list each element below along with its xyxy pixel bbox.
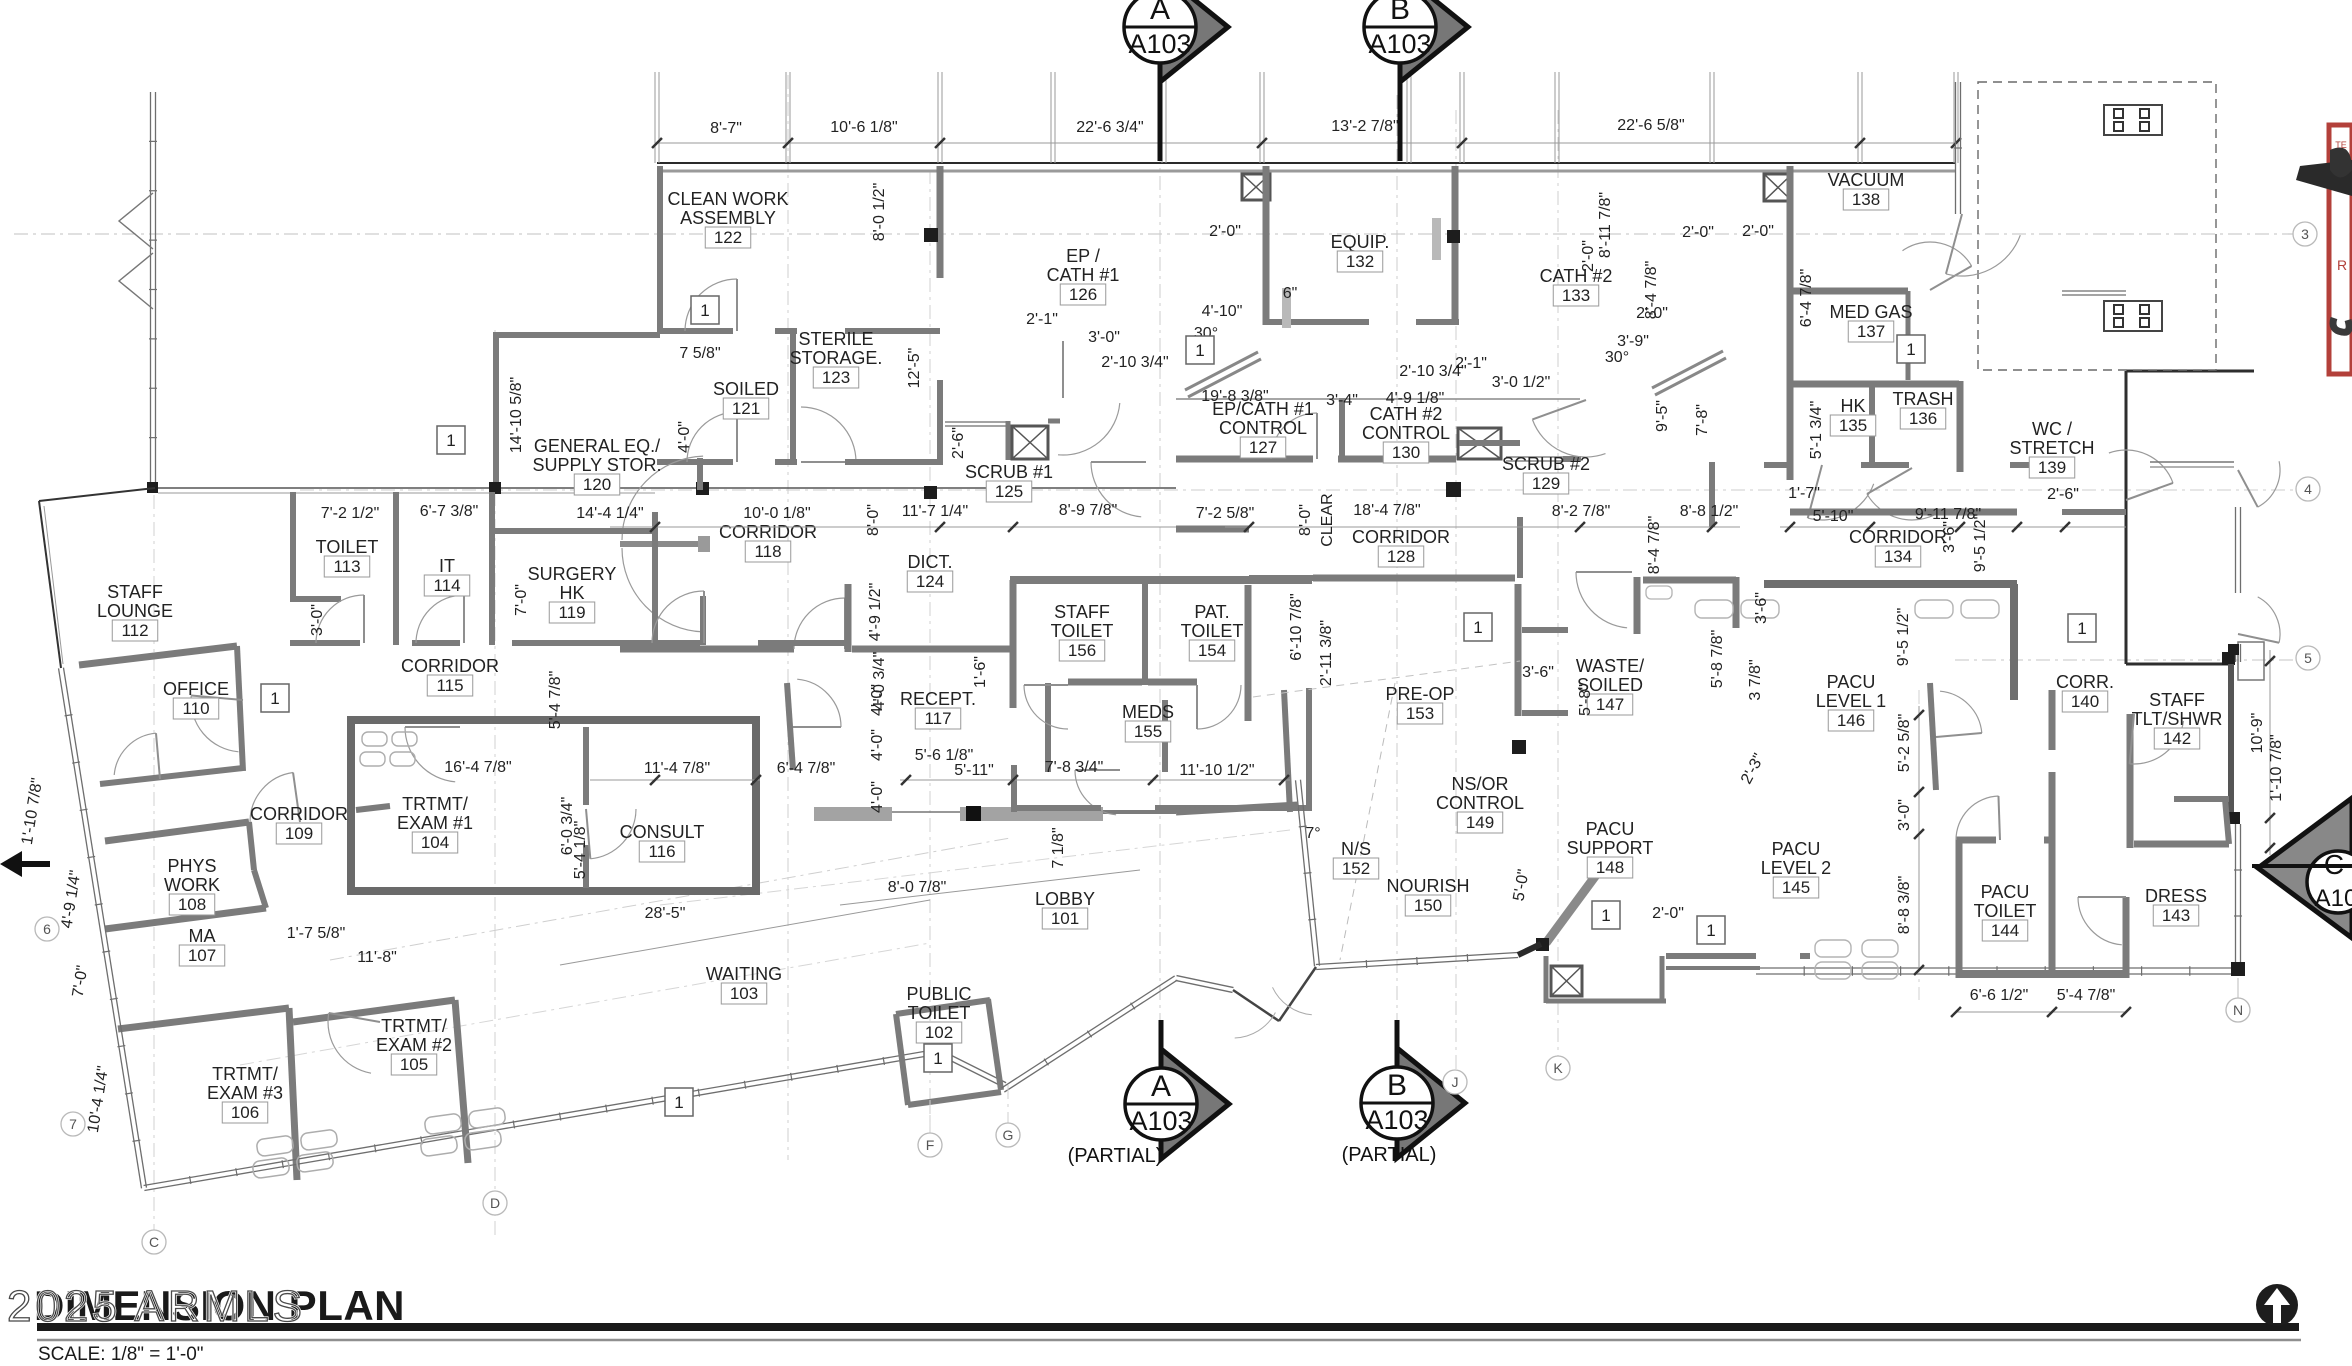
svg-text:7°: 7°	[1305, 825, 1320, 842]
svg-text:K: K	[1553, 1060, 1563, 1076]
svg-text:148: 148	[1596, 858, 1624, 877]
svg-text:16'-4 7/8": 16'-4 7/8"	[444, 759, 511, 776]
svg-text:CONTROL: CONTROL	[1362, 423, 1450, 443]
svg-text:4'-0": 4'-0"	[869, 781, 886, 813]
svg-text:PAT.: PAT.	[1194, 602, 1229, 622]
svg-text:135: 135	[1839, 416, 1867, 435]
svg-text:CORR.: CORR.	[2056, 672, 2114, 692]
svg-text:18'-4 7/8": 18'-4 7/8"	[1353, 502, 1420, 519]
svg-text:2'-0": 2'-0"	[1682, 224, 1714, 241]
svg-text:113: 113	[333, 557, 360, 576]
svg-text:2'-0": 2'-0"	[1209, 223, 1241, 240]
svg-text:5'-10": 5'-10"	[1813, 508, 1854, 525]
svg-text:10'-6 1/8": 10'-6 1/8"	[830, 119, 897, 136]
svg-text:3'-6": 3'-6"	[1941, 521, 1958, 553]
svg-text:1: 1	[2077, 619, 2086, 638]
svg-text:138: 138	[1852, 190, 1880, 209]
svg-text:104: 104	[421, 833, 449, 852]
svg-text:109: 109	[285, 824, 313, 843]
svg-text:1: 1	[1601, 906, 1610, 925]
svg-text:144: 144	[1991, 921, 2019, 940]
svg-text:7: 7	[69, 1116, 77, 1132]
svg-text:PACU: PACU	[1827, 672, 1876, 692]
svg-text:4'-9 1/8": 4'-9 1/8"	[1386, 390, 1445, 407]
svg-text:MED GAS: MED GAS	[1829, 302, 1912, 322]
svg-text:4'-10": 4'-10"	[1202, 303, 1243, 320]
svg-text:LOBBY: LOBBY	[1035, 889, 1095, 909]
svg-text:120: 120	[583, 475, 611, 494]
svg-text:1: 1	[270, 689, 279, 708]
svg-text:N/S: N/S	[1341, 839, 1371, 859]
svg-text:30°: 30°	[1605, 349, 1629, 366]
svg-text:11'-7 1/4": 11'-7 1/4"	[902, 503, 968, 520]
svg-text:A103: A103	[1129, 1106, 1192, 1136]
svg-text:MA: MA	[189, 926, 216, 946]
svg-text:SCALE: 1/8" = 1'-0": SCALE: 1/8" = 1'-0"	[38, 1344, 204, 1365]
svg-text:3'-0": 3'-0"	[309, 604, 326, 636]
svg-text:8'-8 1/2": 8'-8 1/2"	[1680, 503, 1739, 520]
svg-text:6": 6"	[1283, 285, 1298, 302]
svg-text:CORRIDOR: CORRIDOR	[1849, 527, 1947, 547]
svg-text:1'-7 5/8": 1'-7 5/8"	[287, 925, 346, 942]
svg-text:OFFICE: OFFICE	[163, 679, 229, 699]
svg-text:TRASH: TRASH	[1892, 389, 1953, 409]
svg-text:122: 122	[714, 228, 742, 247]
svg-text:14'-4 1/4": 14'-4 1/4"	[576, 505, 643, 522]
svg-text:6'-7 3/8": 6'-7 3/8"	[420, 503, 479, 520]
svg-text:HK: HK	[559, 583, 584, 603]
svg-text:WORK: WORK	[164, 875, 220, 895]
svg-text:5: 5	[2304, 650, 2312, 666]
svg-text:G: G	[1003, 1127, 1014, 1143]
svg-text:7 1/8": 7 1/8"	[1050, 827, 1067, 868]
svg-text:1: 1	[1195, 341, 1204, 360]
svg-text:4'-0": 4'-0"	[676, 421, 693, 453]
svg-text:5'-4 7/8": 5'-4 7/8"	[2057, 987, 2116, 1004]
svg-text:3 7/8": 3 7/8"	[1747, 659, 1764, 700]
svg-text:129: 129	[1532, 474, 1560, 493]
svg-text:CORRIDOR: CORRIDOR	[1352, 527, 1450, 547]
svg-text:STRETCH: STRETCH	[2010, 438, 2095, 458]
svg-text:9'-5": 9'-5"	[1654, 400, 1671, 432]
svg-text:CLEAN WORK: CLEAN WORK	[667, 189, 788, 209]
svg-text:TRTMT/: TRTMT/	[212, 1064, 278, 1084]
svg-text:8'-0": 8'-0"	[1297, 504, 1314, 536]
svg-text:CLEAR: CLEAR	[1319, 493, 1336, 546]
svg-text:3'-0 1/2": 3'-0 1/2"	[1492, 374, 1551, 391]
svg-text:130: 130	[1392, 443, 1420, 462]
svg-text:2'-6": 2'-6"	[950, 427, 967, 459]
svg-text:137: 137	[1857, 322, 1885, 341]
svg-text:146: 146	[1837, 711, 1865, 730]
svg-text:EQUIP.: EQUIP.	[1331, 232, 1390, 252]
svg-text:B: B	[1387, 1069, 1407, 1102]
svg-text:125: 125	[995, 482, 1023, 501]
svg-text:114: 114	[433, 576, 460, 595]
svg-text:CATH #2: CATH #2	[1540, 266, 1613, 286]
svg-text:105: 105	[400, 1055, 428, 1074]
svg-text:28'-5": 28'-5"	[645, 905, 686, 922]
svg-text:2'-0": 2'-0"	[1580, 240, 1597, 272]
svg-text:CONSULT: CONSULT	[620, 822, 705, 842]
svg-text:VACUUM: VACUUM	[1828, 170, 1905, 190]
svg-text:4'-0": 4'-0"	[869, 684, 886, 716]
svg-text:EXAM #3: EXAM #3	[207, 1083, 283, 1103]
svg-text:LEVEL 1: LEVEL 1	[1816, 691, 1886, 711]
svg-text:8'-2 7/8": 8'-2 7/8"	[1552, 503, 1611, 520]
svg-text:NS/OR: NS/OR	[1451, 774, 1508, 794]
svg-text:8'-4 7/8": 8'-4 7/8"	[1646, 516, 1663, 575]
svg-text:A: A	[1150, 0, 1170, 26]
svg-text:WAITING: WAITING	[706, 964, 782, 984]
svg-text:PACU: PACU	[1772, 839, 1821, 859]
svg-text:STERILE: STERILE	[798, 329, 873, 349]
svg-text:1: 1	[674, 1093, 683, 1112]
svg-text:11'-4 7/8": 11'-4 7/8"	[644, 760, 710, 777]
svg-text:SCRUB #1: SCRUB #1	[965, 462, 1053, 482]
svg-text:121: 121	[732, 399, 760, 418]
svg-text:11'-10 1/2": 11'-10 1/2"	[1179, 762, 1254, 779]
svg-text:D: D	[490, 1195, 500, 1211]
svg-text:A103: A103	[1128, 29, 1191, 59]
svg-text:PRE-OP: PRE-OP	[1385, 684, 1454, 704]
svg-text:B: B	[1390, 0, 1410, 26]
svg-text:MEDS: MEDS	[1122, 702, 1174, 722]
svg-text:4: 4	[2304, 481, 2312, 497]
svg-text:126: 126	[1069, 285, 1097, 304]
svg-text:10'-0 1/8": 10'-0 1/8"	[743, 505, 810, 522]
svg-text:5'-8 7/8": 5'-8 7/8"	[1709, 630, 1726, 689]
svg-text:CORRIDOR: CORRIDOR	[250, 804, 348, 824]
svg-text:140: 140	[2071, 692, 2099, 711]
svg-text:TOILET: TOILET	[1181, 621, 1244, 641]
svg-text:STORAGE.: STORAGE.	[790, 348, 883, 368]
svg-text:147: 147	[1596, 695, 1624, 714]
svg-text:GENERAL EQ./: GENERAL EQ./	[534, 436, 660, 456]
svg-text:8'-8 3/8": 8'-8 3/8"	[1896, 876, 1913, 935]
svg-text:CORRIDOR: CORRIDOR	[401, 656, 499, 676]
svg-text:SURGERY: SURGERY	[528, 564, 617, 584]
svg-text:136: 136	[1909, 409, 1937, 428]
svg-text:115: 115	[436, 676, 463, 695]
svg-text:143: 143	[2162, 906, 2190, 925]
svg-text:12'-5": 12'-5"	[906, 348, 923, 389]
svg-text:PUBLIC: PUBLIC	[906, 984, 971, 1004]
svg-text:117: 117	[924, 709, 951, 728]
svg-text:PACU: PACU	[1981, 882, 2030, 902]
svg-text:1: 1	[1706, 921, 1715, 940]
svg-text:ASSEMBLY: ASSEMBLY	[680, 208, 776, 228]
svg-text:7'-2 5/8": 7'-2 5/8"	[1196, 505, 1255, 522]
svg-text:EXAM #2: EXAM #2	[376, 1035, 452, 1055]
svg-text:128: 128	[1387, 547, 1415, 566]
svg-text:1: 1	[1473, 618, 1482, 637]
svg-text:PHYS: PHYS	[167, 856, 216, 876]
svg-text:CORRIDOR: CORRIDOR	[719, 522, 817, 542]
svg-text:3: 3	[2301, 226, 2309, 242]
svg-text:5'-11": 5'-11"	[954, 762, 994, 779]
svg-text:5'-4 7/8": 5'-4 7/8"	[547, 671, 564, 730]
svg-text:7'-8 3/4": 7'-8 3/4"	[1045, 759, 1104, 776]
svg-text:TLT/SHWR: TLT/SHWR	[2132, 709, 2223, 729]
svg-text:2'-1": 2'-1"	[1026, 311, 1058, 328]
svg-text:DRESS: DRESS	[2145, 886, 2207, 906]
svg-text:1: 1	[700, 301, 709, 320]
svg-text:(PARTIAL): (PARTIAL)	[1068, 1145, 1163, 1167]
svg-text:1: 1	[1906, 340, 1915, 359]
svg-text:5'-4 1/8": 5'-4 1/8"	[572, 821, 589, 880]
svg-text:14'-10 5/8": 14'-10 5/8"	[508, 377, 525, 453]
svg-text:2'-11 3/8": 2'-11 3/8"	[1318, 620, 1335, 686]
svg-text:CATH #2: CATH #2	[1370, 404, 1443, 424]
svg-text:1: 1	[446, 431, 455, 450]
svg-text:TE: TE	[2335, 140, 2347, 150]
svg-text:RECEPT.: RECEPT.	[900, 689, 976, 709]
svg-text:9'-5 1/2": 9'-5 1/2"	[1972, 514, 1989, 573]
svg-text:5'-8": 5'-8"	[1577, 684, 1594, 716]
svg-text:TOILET: TOILET	[316, 537, 379, 557]
svg-text:1'-7": 1'-7"	[1788, 485, 1820, 502]
svg-text:6'-4 7/8": 6'-4 7/8"	[1798, 269, 1815, 328]
svg-text:9'-5 1/2": 9'-5 1/2"	[1895, 608, 1912, 667]
svg-text:3'-6": 3'-6"	[1522, 664, 1554, 681]
svg-text:DICT.: DICT.	[908, 552, 953, 572]
svg-text:TOILET: TOILET	[1051, 621, 1114, 641]
svg-text:134: 134	[1884, 547, 1912, 566]
svg-text:TOILET: TOILET	[908, 1003, 971, 1023]
svg-text:127: 127	[1249, 438, 1277, 457]
svg-text:118: 118	[754, 542, 781, 561]
svg-text:107: 107	[188, 946, 216, 965]
svg-text:6'-6 1/2": 6'-6 1/2"	[1970, 987, 2029, 1004]
svg-text:F: F	[926, 1137, 935, 1153]
svg-text:IT: IT	[439, 556, 455, 576]
svg-text:TRTMT/: TRTMT/	[402, 794, 468, 814]
svg-text:1'-10 7/8": 1'-10 7/8"	[2268, 734, 2285, 801]
svg-text:SCRUB #2: SCRUB #2	[1502, 454, 1590, 474]
svg-text:153: 153	[1406, 704, 1434, 723]
svg-text:22'-6 5/8": 22'-6 5/8"	[1617, 117, 1684, 134]
svg-text:119: 119	[558, 603, 585, 622]
svg-text:149: 149	[1466, 813, 1494, 832]
svg-text:WC /: WC /	[2032, 419, 2072, 439]
svg-text:LEVEL 2: LEVEL 2	[1761, 858, 1831, 878]
svg-text:106: 106	[231, 1103, 259, 1122]
svg-text:116: 116	[648, 842, 675, 861]
svg-text:123: 123	[822, 368, 850, 387]
svg-text:C: C	[2324, 849, 2344, 880]
svg-text:150: 150	[1414, 896, 1442, 915]
svg-text:WASTE/: WASTE/	[1576, 656, 1644, 676]
svg-text:LOUNGE: LOUNGE	[97, 601, 173, 621]
svg-text:8'-0 1/2": 8'-0 1/2"	[871, 183, 888, 242]
svg-text:11'-8": 11'-8"	[357, 949, 397, 966]
svg-text:19'-8 3/8": 19'-8 3/8"	[1201, 388, 1268, 405]
svg-text:6: 6	[43, 921, 51, 937]
svg-text:A103: A103	[1368, 29, 1431, 59]
svg-text:SOILED: SOILED	[713, 379, 779, 399]
svg-text:112: 112	[121, 621, 148, 640]
svg-text:SUPPORT: SUPPORT	[1567, 838, 1654, 858]
svg-text:4'-9 1/2": 4'-9 1/2"	[867, 583, 884, 642]
svg-text:PACU: PACU	[1586, 819, 1635, 839]
svg-text:133: 133	[1562, 286, 1590, 305]
svg-text:CATH #1: CATH #1	[1047, 265, 1120, 285]
svg-text:102: 102	[925, 1023, 953, 1042]
svg-text:R: R	[2337, 257, 2347, 273]
svg-text:NOURISH: NOURISH	[1386, 876, 1469, 896]
svg-text:3'-0": 3'-0"	[1896, 799, 1913, 831]
svg-text:142: 142	[2163, 729, 2191, 748]
svg-text:5'-2 5/8": 5'-2 5/8"	[1896, 714, 1913, 773]
svg-text:7'-0": 7'-0"	[513, 584, 530, 616]
svg-text:7'-8": 7'-8"	[1694, 404, 1711, 436]
svg-text:3'-4": 3'-4"	[1326, 392, 1358, 409]
svg-text:8'-11 7/8": 8'-11 7/8"	[1597, 192, 1614, 258]
svg-text:124: 124	[916, 572, 944, 591]
svg-text:3'-0": 3'-0"	[1088, 329, 1120, 346]
svg-text:13'-2 7/8": 13'-2 7/8"	[1331, 118, 1398, 135]
svg-text:TOILET: TOILET	[1974, 901, 2037, 921]
svg-text:(PARTIAL): (PARTIAL)	[1342, 1144, 1437, 1166]
svg-text:2'-0": 2'-0"	[1652, 905, 1684, 922]
svg-text:6'-4 7/8": 6'-4 7/8"	[777, 760, 836, 777]
svg-text:145: 145	[1782, 878, 1810, 897]
svg-text:8'-7": 8'-7"	[710, 120, 742, 137]
svg-text:A: A	[1151, 1070, 1171, 1103]
svg-text:154: 154	[1198, 641, 1226, 660]
svg-text:152: 152	[1342, 859, 1370, 878]
svg-text:103: 103	[730, 984, 758, 1003]
svg-text:110: 110	[182, 699, 209, 718]
svg-text:7 5/8": 7 5/8"	[679, 345, 720, 362]
svg-text:5'-1 3/4": 5'-1 3/4"	[1808, 401, 1825, 460]
svg-text:HK: HK	[1840, 396, 1865, 416]
svg-text:3'-9": 3'-9"	[1617, 333, 1649, 350]
svg-text:101: 101	[1051, 909, 1079, 928]
svg-text:J: J	[1452, 1074, 1459, 1090]
svg-text:155: 155	[1134, 722, 1162, 741]
svg-text:108: 108	[178, 895, 206, 914]
svg-text:STAFF: STAFF	[107, 582, 163, 602]
svg-text:139: 139	[2038, 458, 2066, 477]
svg-text:CONTROL: CONTROL	[1436, 793, 1524, 813]
svg-text:CONTROL: CONTROL	[1219, 418, 1307, 438]
svg-text:STAFF: STAFF	[1054, 602, 1110, 622]
svg-text:EXAM #1: EXAM #1	[397, 813, 473, 833]
svg-text:A103: A103	[1365, 1105, 1428, 1135]
svg-text:8'-0": 8'-0"	[865, 504, 882, 536]
svg-text:4'-0": 4'-0"	[869, 729, 886, 761]
svg-text:3'-6": 3'-6"	[1753, 592, 1770, 624]
svg-text:8'-9 7/8": 8'-9 7/8"	[1059, 502, 1118, 519]
svg-text:7'-2 1/2": 7'-2 1/2"	[321, 505, 380, 522]
svg-text:TRTMT/: TRTMT/	[381, 1016, 447, 1036]
svg-text:2'-10 3/4": 2'-10 3/4"	[1101, 354, 1168, 371]
svg-text:10'-9": 10'-9"	[2249, 713, 2266, 754]
svg-text:22'-6 3/4": 22'-6 3/4"	[1076, 119, 1143, 136]
svg-text:132: 132	[1346, 252, 1374, 271]
svg-text:EP /: EP /	[1066, 246, 1100, 266]
svg-text:2'-1": 2'-1"	[1455, 355, 1487, 372]
svg-text:N: N	[2233, 1002, 2243, 1018]
svg-text:C: C	[149, 1234, 159, 1250]
svg-text:2'-6": 2'-6"	[2047, 486, 2079, 503]
svg-text:1'-6": 1'-6"	[972, 656, 989, 688]
svg-text:8'-4 7/8": 8'-4 7/8"	[1643, 261, 1660, 320]
svg-text:1: 1	[933, 1049, 942, 1068]
svg-text:A10: A10	[2315, 885, 2352, 912]
svg-text:6'-10 7/8": 6'-10 7/8"	[1288, 593, 1305, 660]
svg-text:156: 156	[1068, 641, 1096, 660]
svg-text:SUPPLY STOR.: SUPPLY STOR.	[532, 455, 661, 475]
svg-text:STAFF: STAFF	[2149, 690, 2205, 710]
svg-text:2'-0": 2'-0"	[1742, 223, 1774, 240]
